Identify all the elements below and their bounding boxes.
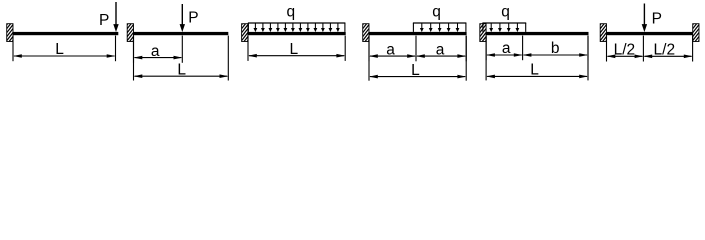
svg-text:L: L xyxy=(289,41,298,58)
svg-text:L/2: L/2 xyxy=(654,41,676,58)
svg-text:q: q xyxy=(286,3,295,20)
wall support 6 left (diagram 6) xyxy=(587,24,620,42)
force P arrow (diagram 6) xyxy=(642,4,662,33)
force P arrow (diagram 2) xyxy=(180,4,199,32)
dimension L/2 right (diagram 6) xyxy=(643,36,692,62)
dimension a outer (diagram 4) xyxy=(416,36,466,62)
svg-text:a: a xyxy=(436,41,445,58)
distributed load q (diagram 4) xyxy=(413,3,467,32)
wall support 5 (fixed end, diagram 5) xyxy=(467,24,500,42)
svg-text:a: a xyxy=(151,43,160,60)
distributed load q (diagram 5) xyxy=(482,3,526,32)
dimension a (diagram 5) xyxy=(486,36,522,61)
wall support 2 (fixed end, diagram 2) xyxy=(114,24,147,42)
wall support 6 right (diagram 6) xyxy=(680,24,705,42)
svg-text:L/2: L/2 xyxy=(614,41,636,58)
svg-text:a: a xyxy=(386,41,395,58)
wall support 1 (fixed end, diagram 1) xyxy=(0,24,26,42)
beam 4 (cantilever) xyxy=(369,32,467,35)
svg-text:P: P xyxy=(99,12,109,29)
distributed load q (diagram 3) xyxy=(248,3,346,32)
beam 5 (cantilever) xyxy=(486,32,589,35)
svg-text:L: L xyxy=(411,62,420,79)
dimension L (diagram 3) xyxy=(248,36,345,61)
svg-text:q: q xyxy=(432,3,441,20)
dimension L (diagram 5) xyxy=(486,36,588,81)
force P arrow (diagram 1) xyxy=(99,2,119,32)
svg-text:P: P xyxy=(188,9,198,26)
svg-text:L: L xyxy=(530,62,539,79)
dimension a inner (diagram 4) xyxy=(369,36,416,62)
dimension L (diagram 4) xyxy=(369,36,466,81)
beam 2 (cantilever) xyxy=(133,32,228,35)
beam 6 (fixed both ends) xyxy=(606,32,693,35)
svg-text:L: L xyxy=(55,41,64,58)
dimension L (diagram 1) xyxy=(13,36,116,62)
svg-text:L: L xyxy=(177,61,186,78)
beam 1 (cantilever) xyxy=(13,32,119,35)
dimension b (diagram 5) xyxy=(523,36,588,61)
dimension L (diagram 2) xyxy=(134,36,229,81)
wall support 4 (fixed end, diagram 4) xyxy=(350,24,383,42)
svg-text:a: a xyxy=(502,40,511,57)
wall support 3 (fixed end, diagram 3) xyxy=(229,24,262,42)
svg-text:P: P xyxy=(652,10,662,27)
dimension a (diagram 2) xyxy=(134,36,183,63)
beam 3 (cantilever) xyxy=(248,32,346,35)
dimension L/2 left (diagram 6) xyxy=(607,36,644,62)
svg-text:q: q xyxy=(501,3,510,20)
svg-text:b: b xyxy=(551,40,560,57)
